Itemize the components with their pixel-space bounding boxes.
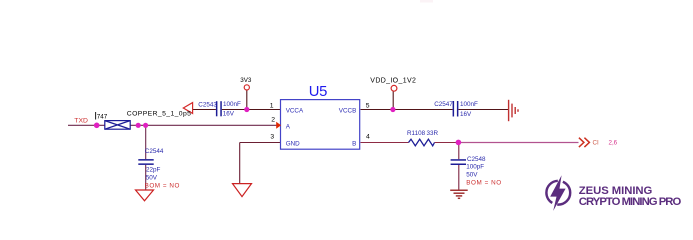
svg-text:C2548: C2548 (467, 156, 486, 163)
svg-text:33R: 33R (427, 130, 439, 137)
svg-text:U5: U5 (309, 84, 327, 100)
svg-text:22pF: 22pF (146, 167, 161, 174)
svg-text:B: B (352, 140, 356, 147)
svg-text:2: 2 (271, 117, 275, 124)
svg-text:VDD_IO_1V2: VDD_IO_1V2 (370, 78, 416, 85)
svg-text:747: 747 (97, 113, 108, 120)
svg-text:CRYPTO MINING PRO: CRYPTO MINING PRO (579, 196, 682, 208)
svg-text:100nF: 100nF (223, 101, 241, 108)
svg-text:2,6: 2,6 (609, 139, 618, 146)
svg-text:4: 4 (366, 134, 370, 141)
svg-text:COPPER_5_1_0p5: COPPER_5_1_0p5 (127, 111, 192, 118)
svg-text:GND: GND (286, 140, 300, 147)
svg-text:C2543: C2543 (198, 101, 217, 108)
svg-text:CI: CI (593, 139, 599, 146)
svg-text:VCCA: VCCA (286, 108, 304, 115)
svg-text:16V: 16V (460, 111, 472, 118)
svg-text:3V3: 3V3 (240, 77, 252, 84)
svg-text:VCCB: VCCB (339, 108, 357, 115)
svg-text:50V: 50V (146, 175, 158, 182)
svg-text:100pF: 100pF (466, 164, 484, 171)
svg-text:BOM = NO: BOM = NO (466, 180, 501, 187)
svg-text:TXD: TXD (74, 118, 88, 125)
svg-text:50V: 50V (466, 171, 478, 178)
svg-text:BOM = NO: BOM = NO (145, 183, 180, 190)
svg-text:C2547: C2547 (434, 101, 453, 108)
svg-text:R1108: R1108 (407, 130, 426, 137)
svg-text:100nF: 100nF (460, 101, 478, 108)
svg-text:1: 1 (270, 103, 274, 110)
svg-text:5: 5 (366, 102, 370, 109)
svg-text:C2544: C2544 (145, 148, 164, 155)
svg-text:3: 3 (270, 133, 274, 140)
svg-text:16V: 16V (223, 111, 235, 118)
